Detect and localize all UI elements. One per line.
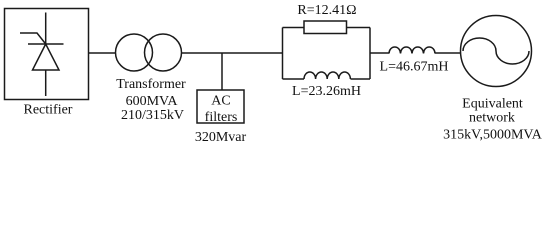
svg-text:L=23.26mH: L=23.26mH bbox=[292, 84, 361, 99]
wire rectifier to transformer bbox=[89, 52, 117, 54]
wire filter to series inductor bbox=[370, 52, 389, 54]
thyristor gate lead bbox=[20, 33, 46, 44]
transformer winding 1 bbox=[116, 34, 153, 71]
wire top branch left bbox=[283, 27, 305, 29]
svg-text:AC: AC bbox=[211, 94, 230, 109]
wire bottom branch left bbox=[283, 78, 305, 80]
AC source sine wave bbox=[463, 38, 529, 64]
inductor L parallel branch bbox=[304, 72, 350, 79]
thyristor cathode lead bbox=[45, 70, 47, 96]
thyristor valve anode lead bbox=[45, 13, 47, 45]
svg-text:L=46.67mH: L=46.67mH bbox=[380, 59, 449, 74]
transformer winding 2 bbox=[145, 34, 182, 71]
svg-text:210/315kV: 210/315kV bbox=[121, 108, 184, 123]
parallel RL right vertical wire bbox=[369, 28, 371, 80]
wire bottom branch right bbox=[351, 78, 371, 80]
AC source circle bbox=[461, 16, 532, 87]
rectifier box bbox=[5, 9, 89, 100]
wire transformer to filter bank bbox=[182, 52, 283, 54]
wire series inductor to source bbox=[435, 52, 461, 54]
svg-text:filters: filters bbox=[205, 110, 238, 125]
svg-text:R=12.41Ω: R=12.41Ω bbox=[297, 3, 356, 18]
thyristor triangle bbox=[33, 44, 60, 70]
parallel RL left vertical wire bbox=[282, 28, 284, 80]
svg-text:Equivalent: Equivalent bbox=[462, 97, 523, 112]
wire tap down to AC filters bbox=[221, 53, 223, 90]
svg-text:Transformer: Transformer bbox=[116, 77, 186, 92]
svg-text:network: network bbox=[469, 111, 515, 126]
wire top branch right bbox=[347, 27, 371, 29]
AC filters box bbox=[197, 90, 244, 123]
thyristor cathode bar bbox=[28, 43, 64, 45]
inductor L series bbox=[389, 47, 435, 54]
resistor R bbox=[304, 21, 347, 34]
svg-text:320Mvar: 320Mvar bbox=[195, 130, 247, 145]
svg-text:315kV,5000MVA: 315kV,5000MVA bbox=[443, 128, 543, 143]
svg-text:Rectifier: Rectifier bbox=[24, 103, 73, 118]
svg-text:600MVA: 600MVA bbox=[126, 94, 179, 109]
